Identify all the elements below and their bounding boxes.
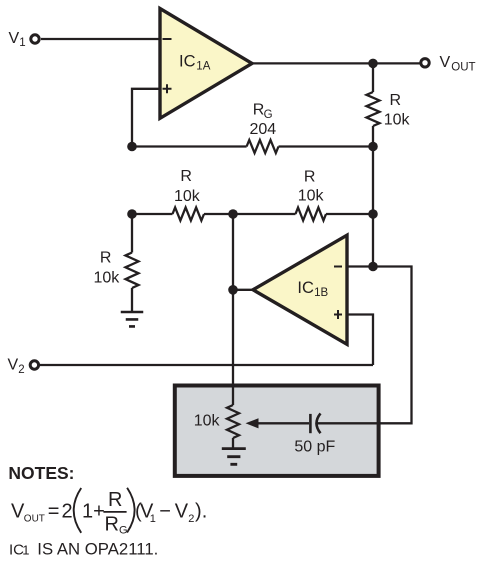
junction node at output bus top — [368, 59, 378, 69]
ground (left column) — [121, 312, 144, 326]
svg-text:1: 1 — [150, 513, 156, 525]
svg-text:10k: 10k — [94, 269, 121, 286]
svg-text:IC: IC — [179, 52, 196, 70]
IC1B minus sign — [334, 266, 342, 268]
svg-text:1A: 1A — [196, 61, 210, 73]
svg-text:10k: 10k — [384, 112, 411, 129]
IC1B plus sign — [334, 310, 342, 319]
capacitor 50 pF right plate — [317, 413, 321, 433]
svg-text:R: R — [304, 169, 316, 186]
svg-text:2: 2 — [62, 500, 73, 522]
op-amp IC1A — [160, 9, 252, 119]
op-amp IC1B — [253, 235, 347, 344]
wire wiper to capacitor — [257, 422, 309, 424]
IC1A plus sign — [163, 84, 172, 93]
wire right bus upper — [372, 63, 374, 92]
svg-text:1: 1 — [22, 543, 29, 558]
svg-text:IC: IC — [297, 279, 314, 297]
svg-text:NOTES:: NOTES: — [8, 463, 74, 483]
wire IC1B output — [233, 289, 254, 291]
resistor R 10k (output to RG node) — [367, 92, 380, 126]
resistor R 10k (left column) — [126, 253, 139, 289]
svg-text:R: R — [105, 514, 119, 536]
svg-text:IS AN OPA2111.: IS AN OPA2111. — [37, 540, 158, 559]
svg-text:10k: 10k — [298, 187, 325, 204]
svg-text:2: 2 — [18, 364, 24, 376]
svg-text:204: 204 — [249, 121, 276, 138]
wire potentiometer bottom — [232, 438, 234, 449]
svg-text:.: . — [202, 500, 208, 522]
wire right bus lower — [372, 126, 374, 267]
resistor R 10k (middle right) — [296, 208, 326, 221]
svg-text:10k: 10k — [174, 188, 201, 205]
junction node left RG — [127, 142, 137, 152]
svg-text:V: V — [175, 500, 189, 522]
wire left column upper — [131, 214, 133, 253]
svg-text:G: G — [119, 524, 128, 536]
formula VOUT = 2(1+R/RG)(V1-V2). — [11, 488, 207, 537]
capacitor 50 pF left plate — [309, 414, 312, 433]
shaded attenuator box — [175, 386, 379, 476]
wire IC1B noninverting input to V2 row — [347, 315, 373, 366]
wire IC1A output — [252, 62, 420, 64]
svg-text:10k: 10k — [194, 412, 221, 429]
svg-text:1: 1 — [19, 37, 25, 49]
potentiometer 10k zigzag — [227, 405, 239, 438]
wire V2 row — [40, 364, 373, 366]
svg-text:1+: 1+ — [82, 500, 105, 522]
IC1A minus sign — [163, 38, 172, 40]
wire V1 to IC1A inverting input — [41, 38, 160, 40]
terminal V1 — [31, 35, 39, 43]
svg-text:OUT: OUT — [24, 514, 45, 525]
svg-text:−: − — [159, 500, 171, 522]
junction node IC1B output — [228, 285, 238, 295]
svg-text:R: R — [180, 168, 192, 185]
resistor R 10k (middle left) — [173, 208, 205, 221]
svg-text:G: G — [264, 109, 273, 121]
potentiometer wiper arrow — [246, 418, 259, 428]
wire RG row — [132, 145, 373, 147]
junction node right middle row — [368, 209, 378, 219]
junction node IC1B inverting — [368, 262, 378, 272]
svg-text:=: = — [48, 500, 60, 522]
svg-text:2: 2 — [188, 513, 194, 525]
junction node right RG — [368, 142, 378, 152]
wire IC1A noninverting input — [132, 89, 160, 147]
terminal VOUT — [421, 59, 429, 67]
wire IC1B inverting input to right vertical — [317, 267, 412, 424]
wire middle row — [132, 213, 373, 215]
junction node center middle row — [228, 209, 238, 219]
svg-text:R: R — [390, 92, 402, 109]
svg-text:V: V — [440, 54, 451, 71]
svg-text:V: V — [9, 30, 20, 47]
svg-text:OUT: OUT — [451, 62, 475, 74]
svg-text:V: V — [8, 357, 19, 374]
ground (in box) — [222, 449, 246, 465]
svg-text:R: R — [100, 249, 112, 266]
terminal V2 — [30, 361, 38, 369]
resistor RG 204 — [247, 140, 279, 153]
wire middle vertical to potentiometer — [232, 214, 234, 405]
svg-text:R: R — [108, 489, 122, 511]
svg-text:1B: 1B — [314, 287, 328, 299]
svg-text:50 pF: 50 pF — [294, 439, 335, 456]
junction node left middle row — [127, 209, 137, 219]
svg-text:): ) — [195, 500, 202, 522]
wire left column lower — [131, 288, 133, 312]
